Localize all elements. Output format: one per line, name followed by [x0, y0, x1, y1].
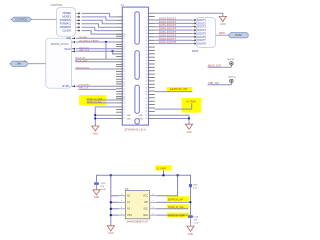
wire DATA-DOUT5: [155, 33, 192, 35]
wire cap114 to gnd: [190, 218, 192, 226]
svg-text:DATA: DATA: [219, 32, 225, 35]
svg-text:1: 1: [123, 17, 124, 19]
svg-text:34: 34: [146, 67, 148, 69]
svg-text:52: 52: [146, 98, 148, 100]
highlight DVDD_IO_SDA yellow box (bottom): [167, 213, 189, 218]
wire VCC to rail: [156, 175, 177, 195]
svg-text:DAI: DAI: [17, 63, 21, 66]
bus entry arrow: [72, 41, 75, 43]
svg-text:DVDD_IO_SCL: DVDD_IO_SCL: [168, 207, 185, 209]
svg-text:MCLKo: MCLKo: [228, 59, 236, 61]
wire power rail: [97, 175, 191, 215]
svg-text:24: 24: [146, 50, 148, 52]
highlight DVDD_IO_SCL yellow box (bottom): [167, 204, 189, 209]
wire left GND net: [95, 107, 116, 126]
wire PDN_CLK: [78, 88, 116, 90]
bus entry arrow DOUT3: [192, 26, 195, 28]
svg-text:GND: GND: [93, 132, 99, 135]
svg-text:17: 17: [123, 38, 125, 40]
junction eeprom left: [110, 208, 112, 210]
connector GND pin names: [126, 115, 143, 120]
svg-text:46: 46: [146, 87, 148, 89]
highlight DVDD_IO yellow box: [79, 95, 106, 105]
svg-text:C114: C114: [193, 216, 199, 218]
wire FORMAT2 to connector pin: [82, 27, 117, 30]
junction left gnd 2: [94, 118, 96, 120]
svg-text:6: 6: [153, 207, 154, 209]
svg-text:64: 64: [146, 118, 148, 120]
svg-text:I2S-FSYNC: I2S-FSYNC: [78, 84, 90, 86]
highlight EEPROM_WP yellow box: [167, 87, 193, 91]
junction on CHP_CLK: [112, 50, 114, 52]
svg-text:WP: WP: [144, 201, 148, 204]
svg-text:5: 5: [123, 23, 124, 25]
wire DATA-DOUT4: [155, 29, 192, 31]
wire DATA-DOUT7: [155, 39, 192, 41]
svg-text:IO_PWR: IO_PWR: [186, 101, 196, 104]
svg-text:16: 16: [146, 37, 148, 39]
svg-text:48: 48: [146, 91, 148, 93]
svg-text:4: 4: [147, 16, 148, 18]
wire I2S-LRCLK_FSYNC: [76, 41, 116, 43]
svg-text:58: 58: [146, 108, 148, 110]
junction on LRCLK_FSYNC: [105, 41, 107, 43]
svg-text:12: 12: [146, 30, 148, 32]
svg-text:VSS: VSS: [127, 214, 132, 217]
wire branch LRCLK down: [105, 42, 107, 59]
svg-text:30: 30: [146, 60, 148, 62]
svg-text:2: 2: [121, 201, 122, 203]
bus entry arrow DOUT2: [192, 22, 195, 24]
svg-text:79: 79: [123, 118, 125, 120]
svg-text:GND: GND: [126, 118, 131, 120]
wire MODE0 to connector pin: [82, 13, 117, 16]
svg-text:CLKDIV: CLKDIV: [62, 29, 71, 32]
wire FORMAT0 to connector pin: [82, 20, 117, 23]
svg-text:/SYNC: /SYNC: [62, 85, 70, 88]
junction rail IO_PWR: [163, 174, 165, 176]
wire top right to ground: [155, 13, 223, 16]
bus entry arrow: [72, 50, 75, 52]
wire SCL: [156, 208, 188, 210]
svg-text:SCL: SCL: [143, 208, 148, 211]
wire CLKDIV to connector pin: [82, 31, 117, 34]
svg-text:DVDD_IO_SDA: DVDD_IO_SDA: [87, 97, 103, 100]
connector pin stubs right: [149, 13, 155, 118]
svg-text:3.3V: 3.3V: [193, 187, 198, 189]
junction rail VCC: [177, 174, 179, 176]
wire MCLK_IN: [75, 58, 116, 60]
bus entry arrow: [76, 13, 79, 15]
svg-text:EEPROM_WP: EEPROM_WP: [170, 87, 188, 91]
bus bracket DAI: [46, 38, 72, 88]
wire MCLK_OUT (testpoint): [208, 66, 232, 68]
wire DATA-DOUT2: [155, 22, 192, 24]
svg-text:77: 77: [123, 115, 125, 117]
svg-text:DOUT8: DOUT8: [197, 43, 206, 46]
wire DATA-DOUT8: [155, 43, 192, 45]
svg-text:42: 42: [146, 81, 148, 83]
svg-text:32: 32: [146, 64, 148, 66]
svg-text:I2S-DIN: I2S-DIN: [79, 37, 87, 39]
svg-text:CONTROL: CONTROL: [51, 4, 64, 7]
junction left gnd 1: [94, 114, 96, 116]
connector pin stubs left: [116, 17, 122, 119]
bus entry arrow: [76, 23, 79, 25]
svg-text:2: 2: [147, 13, 148, 15]
wire DVDD_IO_SCL: [87, 102, 116, 104]
svg-text:54: 54: [146, 101, 148, 103]
ground top right: [219, 16, 226, 21]
svg-text:CHPCLk: CHPCLk: [228, 77, 237, 79]
svg-text:GND: GND: [138, 118, 143, 120]
connector J4 body: [122, 7, 148, 125]
svg-text:20: 20: [146, 43, 148, 45]
svg-text:GND: GND: [126, 115, 131, 117]
wire cap to gnd: [96, 185, 98, 190]
wire MODE1 to connector pin: [82, 17, 117, 20]
svg-text:C113: C113: [101, 183, 107, 185]
svg-text:40: 40: [146, 77, 148, 79]
connector pin numbers: [123, 13, 147, 120]
wire DATA-DOUT6: [155, 36, 192, 38]
ground left of connector: [92, 126, 99, 131]
wire DATA bus to port: [216, 34, 229, 36]
svg-text:3: 3: [121, 207, 122, 209]
svg-text:DATA: DATA: [192, 50, 199, 53]
svg-text:7: 7: [153, 201, 154, 203]
svg-text:GND: GND: [138, 115, 143, 117]
svg-text:69: 69: [123, 103, 125, 105]
bus entry arrow: [72, 37, 75, 39]
wire branch CHP down: [113, 51, 117, 54]
port DAI: [10, 61, 28, 66]
wire FORMAT1 to connector pin: [82, 24, 117, 27]
svg-text:GND: GND: [186, 131, 192, 134]
svg-text:DATA: DATA: [235, 34, 242, 37]
capacitor C113: [94, 182, 106, 191]
svg-text:GND: GND: [220, 23, 226, 26]
wire eeprom address pins to gnd: [111, 175, 119, 226]
svg-text:75: 75: [123, 112, 125, 114]
svg-text:60: 60: [146, 111, 148, 113]
svg-text:0.1uF: 0.1uF: [101, 189, 107, 191]
svg-text:5: 5: [153, 213, 154, 215]
wire CHP_CLK: [76, 50, 116, 52]
svg-text:MCLK_OUT: MCLK_OUT: [208, 64, 222, 67]
wire CONTROL port to bracket: [32, 19, 57, 21]
bus entry arrow: [72, 48, 75, 50]
wire I2S-FSYNC: [76, 85, 116, 87]
svg-text:GND: GND: [188, 233, 194, 236]
svg-text:4: 4: [121, 213, 122, 215]
svg-text:22: 22: [146, 47, 148, 49]
svg-text:PDN_CLK: PDN_CLK: [78, 88, 89, 90]
svg-text:7: 7: [123, 27, 124, 29]
svg-text:GND: GND: [108, 232, 114, 235]
wire IO_PWR connector: [155, 103, 192, 109]
svg-text:DIN: DIN: [67, 37, 71, 40]
wire I2S-SCLK: [76, 48, 116, 50]
svg-text:26: 26: [146, 54, 148, 56]
junction eeprom left: [110, 214, 112, 216]
highlight IO_PWR yellow box (connector): [182, 98, 202, 113]
svg-text:CHP_CLK: CHP_CLK: [79, 50, 90, 52]
power marker 3.3V: [189, 184, 198, 189]
wire SDA: [156, 214, 188, 216]
wire DAI port to bracket: [28, 63, 46, 65]
svg-text:0.1uF: 0.1uF: [194, 222, 200, 224]
svg-text:10: 10: [146, 26, 148, 28]
svg-text:DVDD_IO_SDA: DVDD_IO_SDA: [168, 215, 185, 218]
ground right of connector: [185, 124, 192, 129]
svg-text:67: 67: [123, 100, 125, 102]
svg-text:,ERROR_FSYNC: ,ERROR_FSYNC: [51, 44, 69, 46]
svg-text:SCLK: SCLK: [64, 48, 71, 51]
wire EEPROM_WP: [155, 91, 193, 93]
svg-text:56: 56: [146, 104, 148, 106]
svg-text:CONTROL: CONTROL: [15, 18, 28, 21]
bus entry arrow DOUT6: [192, 36, 195, 38]
highlight IO_PWR yellow box (bottom circuit): [155, 165, 172, 170]
port CONTROL: [11, 17, 32, 22]
svg-text:QTH-030-01-L-D-A: QTH-030-01-L-D-A: [124, 129, 146, 132]
wire DATA-DOUT3: [155, 26, 192, 28]
svg-text:VCC: VCC: [143, 195, 148, 198]
bus entry arrow: [76, 16, 79, 18]
svg-text:GND: GND: [94, 196, 100, 199]
bus entry arrow DOUT4: [192, 29, 195, 31]
svg-text:24AA025E48T-I/OT: 24AA025E48T-I/OT: [127, 220, 149, 223]
bus bracket CONTROL: [56, 8, 75, 37]
capacitor C114: [188, 215, 200, 224]
bus entry arrow DOUT7: [192, 39, 195, 41]
svg-text:GND: GND: [193, 185, 198, 187]
junction rail left: [110, 174, 112, 176]
svg-text:DVDD_IO_SCL: DVDD_IO_SCL: [87, 101, 103, 103]
ground below C113: [93, 190, 100, 195]
wire row 53.9: [113, 53, 117, 55]
svg-text:62: 62: [146, 115, 148, 117]
wire IO_PWR drop: [163, 170, 165, 175]
eeprom U5: [119, 191, 156, 219]
test point CHPCLk: [228, 77, 237, 85]
bus entry arrow: [72, 85, 75, 87]
bus entry arrow DOUT8: [192, 43, 195, 45]
svg-text:GPIO-DOUT1: GPIO-DOUT1: [75, 68, 89, 70]
bus entry arrow: [76, 19, 79, 21]
bus entry arrow DOUT5: [192, 33, 195, 35]
svg-text:3: 3: [123, 20, 124, 22]
junction eeprom left: [110, 201, 112, 203]
svg-text:DATA-DOUT8: DATA-DOUT8: [159, 40, 177, 44]
wire I2S-DIN: [76, 37, 116, 39]
wire DATA-DOUT1: [155, 19, 192, 21]
bus bracket DATA: [197, 17, 216, 47]
svg-text:25V: 25V: [101, 186, 105, 188]
svg-text:CHP_CLK: CHP_CLK: [208, 82, 219, 85]
svg-text:31: 31: [123, 56, 125, 58]
svg-text:36: 36: [146, 70, 148, 72]
test point MCLKo: [228, 59, 236, 67]
wire DVDD_IO_SDA: [87, 99, 116, 101]
svg-text:SDA: SDA: [143, 214, 148, 217]
junction WP: [190, 201, 192, 203]
svg-text:8: 8: [153, 194, 154, 196]
svg-text:28: 28: [146, 57, 148, 59]
wire CHP_CLK (testpoint): [208, 84, 232, 86]
svg-text:50: 50: [146, 94, 148, 96]
svg-text:38: 38: [146, 74, 148, 76]
wire WP: [156, 201, 190, 203]
svg-text:9: 9: [123, 30, 124, 32]
wire right GND net: [155, 115, 189, 124]
svg-text:IO_PWR: IO_PWR: [157, 167, 167, 170]
svg-text:18: 18: [146, 40, 148, 42]
svg-text:73: 73: [123, 109, 125, 111]
svg-text:EEPROM_WP: EEPROM_WP: [168, 199, 183, 201]
svg-text:14: 14: [146, 33, 148, 35]
bus entry arrow: [76, 26, 79, 28]
svg-text:6: 6: [147, 20, 148, 22]
bus entry arrow DOUT1: [192, 19, 195, 21]
ground below eeprom: [107, 226, 114, 231]
svg-text:1: 1: [121, 194, 122, 196]
svg-text:I2S-LRCLK_FSYNC: I2S-LRCLK_FSYNC: [79, 40, 99, 42]
bus entry arrow: [76, 30, 79, 32]
wire GPIO-DOUT1: [75, 68, 116, 70]
junction right gnd: [188, 118, 190, 120]
svg-text:44: 44: [146, 84, 148, 86]
svg-text:MCLK_OUT: MCLK_OUT: [75, 60, 88, 62]
highlight EEPROM_WP yellow box (bottom): [167, 196, 189, 201]
svg-text:8: 8: [147, 23, 148, 25]
port DATA: [228, 33, 248, 38]
svg-text:25V: 25V: [194, 219, 198, 221]
wire MCLK_OUT: [75, 61, 116, 63]
ground below C114: [187, 226, 194, 231]
